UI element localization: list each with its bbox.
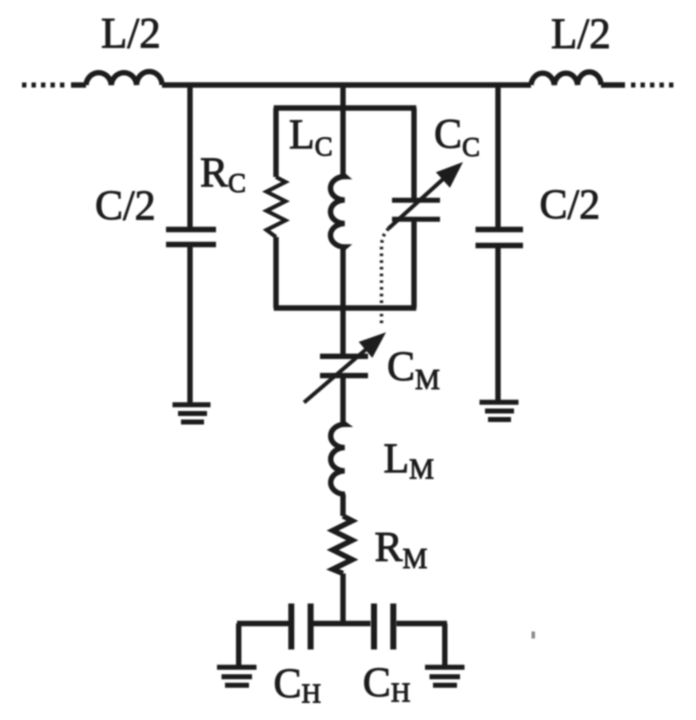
svg-text:RC: RC: [200, 151, 246, 199]
svg-text:L/2: L/2: [551, 11, 611, 58]
svg-text:CM: CM: [387, 345, 440, 397]
svg-text:CC: CC: [434, 112, 480, 162]
svg-text:CH: CH: [274, 662, 322, 709]
svg-text:C/2: C/2: [540, 183, 601, 229]
svg-text:CH: CH: [363, 661, 411, 708]
svg-text:LC: LC: [289, 113, 333, 162]
svg-text:LM: LM: [384, 437, 435, 486]
svg-text:C/2: C/2: [95, 184, 156, 230]
svg-text:L/2: L/2: [101, 11, 161, 58]
svg-text:RM: RM: [375, 525, 428, 575]
